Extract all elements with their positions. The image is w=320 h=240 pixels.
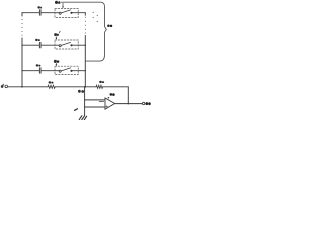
row 3 wire from switch: [73, 70, 86, 72]
left bus row3 junction: [21, 70, 22, 71]
switch S1 right contact: [70, 12, 72, 14]
continuation dots column 1: [93, 12, 94, 18]
capacitor C3: [39, 68, 41, 74]
wire: bottom wire to summing node: [55, 86, 96, 88]
ground stray mark: [75, 109, 78, 111]
wire: feedback top run: [103, 86, 129, 88]
capacitor C2: [39, 42, 41, 48]
continuation dots column 2: [97, 15, 98, 22]
input terminal e label: [1, 84, 4, 88]
resistor R2 (feedback): [96, 85, 103, 88]
row 2 wire from switch: [73, 44, 86, 46]
switch S2 arm: [61, 42, 70, 45]
switch S3 right contact: [70, 70, 72, 72]
switch S2 left contact: [59, 45, 61, 47]
row 2 wire to switch: [42, 44, 59, 46]
capacitor C2 label: [35, 39, 40, 41]
switch S2 dashed box: [55, 40, 78, 49]
resistor R1 (input resistor): [48, 85, 55, 88]
brace grouping N channels: [62, 2, 107, 61]
left bus solid lower wire: [21, 38, 23, 87]
brace label N: [107, 24, 112, 27]
node A junction dot: [84, 86, 86, 88]
capacitor C3 label: [36, 64, 41, 66]
switch S3 arm: [61, 68, 70, 71]
switch S1 left contact: [59, 12, 61, 14]
left bus vertical wire: [21, 13, 23, 16]
resistor R1 value label: [49, 81, 54, 83]
wire: non-inverting input: [85, 106, 105, 108]
left bus dashed continuation: [22, 19, 23, 36]
wire: inverting input: [85, 99, 105, 101]
input terminal circle: [5, 85, 8, 88]
feedback output junction: [128, 103, 130, 105]
switch S2 control arrow: [55, 37, 57, 39]
switch S3 control label: [54, 60, 59, 63]
op-amp plus sign: [106, 106, 108, 108]
wire: output: [115, 103, 143, 105]
output terminal label: [145, 102, 150, 105]
switch S2 control label: [54, 33, 59, 36]
row 1 wire from switch: [73, 12, 86, 14]
switch S2 control label tick: [58, 31, 61, 33]
right bus solid wire: [84, 36, 86, 87]
row 2 wire left: [22, 44, 39, 46]
switch S2 right contact: [70, 44, 72, 46]
switch S3 left contact: [59, 70, 61, 72]
right bus row3 junction: [85, 70, 86, 71]
row 1 wire left: [22, 12, 39, 14]
wire: feedback vertical: [127, 87, 129, 104]
left bus bottom junction: [21, 86, 23, 88]
capacitor C1: [39, 10, 41, 16]
switch S1 dashed box: [55, 9, 78, 18]
resistor R2 value label: [99, 81, 104, 83]
right bus row2 junction: [85, 45, 86, 46]
wire: bottom input wire: [8, 86, 48, 88]
switch S1 control label: [55, 1, 61, 4]
right bus top corner wire: [84, 13, 86, 16]
right bus dotted continuation: [85, 17, 86, 34]
switch S1 control arrow: [62, 3, 64, 7]
switch S3 dashed box: [55, 66, 78, 74]
output terminal circle: [142, 102, 144, 104]
capacitor C1 label: [37, 6, 42, 8]
op-amp minus sign: [99, 101, 103, 103]
switch S3 control arrow: [55, 63, 57, 65]
row 1 wire to switch: [42, 12, 59, 14]
node A label: [78, 90, 84, 93]
row 3 wire left: [22, 70, 39, 72]
op-amp U1 triangle: [105, 98, 115, 109]
left bus row2 junction: [21, 45, 22, 46]
ground: [79, 116, 86, 120]
right bus lower vertical to ground: [84, 87, 86, 116]
op-amp gain label A: [108, 93, 115, 98]
switch S1 arm: [61, 10, 70, 13]
row 3 wire to switch: [42, 70, 59, 72]
